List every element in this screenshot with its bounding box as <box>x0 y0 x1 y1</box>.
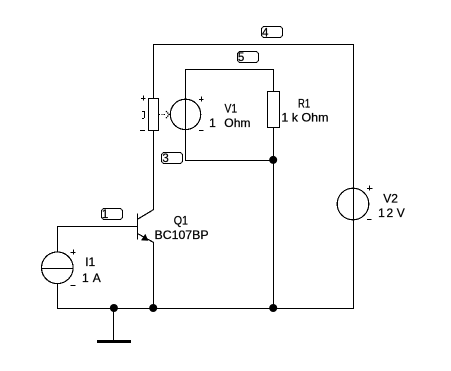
probe minus mark <box>140 130 145 132</box>
I1 chord line <box>42 268 73 270</box>
node 5 box <box>238 52 259 65</box>
wire inner loop bottom (node 3 net) <box>185 160 274 162</box>
wire emitter down <box>153 242 155 308</box>
node 4 box <box>262 27 283 40</box>
probe bracket label <box>142 111 145 119</box>
wire inner loop top (node 5 net) <box>185 69 274 71</box>
Q1 label <box>174 213 189 227</box>
node 3 box <box>162 153 183 166</box>
svg-text:A: A <box>93 271 101 285</box>
V1 value label <box>209 116 250 130</box>
I1 label <box>85 255 95 269</box>
svg-text:V1: V1 <box>225 102 238 116</box>
V2 value label <box>378 206 405 220</box>
wire I1 bottom <box>57 284 59 309</box>
junction dot R1 branch <box>269 304 277 312</box>
resistor R1 body <box>268 92 280 128</box>
svg-text:Q1: Q1 <box>174 213 189 227</box>
svg-text:3: 3 <box>162 153 168 165</box>
svg-text:Ohm: Ohm <box>224 116 250 130</box>
R1 label <box>298 97 310 111</box>
Q1 collector diagonal <box>138 210 154 219</box>
wire left branch upper <box>153 44 155 98</box>
I1 minus mark <box>71 285 76 287</box>
V2 label <box>383 192 398 206</box>
svg-text:R1: R1 <box>298 97 310 111</box>
junction dot ground <box>110 304 118 312</box>
V2 minus mark <box>367 219 372 221</box>
wire inner loop left through V1 <box>185 69 187 160</box>
wire bottom rail (ground net) <box>57 308 354 310</box>
probe plus mark <box>141 96 146 101</box>
svg-text:4: 4 <box>262 27 269 39</box>
I1 value label <box>82 271 101 285</box>
Q1 emitter arrow <box>141 234 148 240</box>
junction dot node 3 <box>269 156 277 164</box>
wire node 3 down to bottom rail <box>273 160 275 308</box>
svg-text:2: 2 <box>387 206 394 220</box>
wire R1 bottom to node 3 <box>273 128 275 160</box>
current sense probe rectangle of CCVS V1 <box>149 99 159 131</box>
wire R1 top feed <box>273 69 275 91</box>
wire top rail (node 4 net) <box>153 44 354 46</box>
V1 plus mark <box>199 97 204 102</box>
svg-text:1 k Ohm: 1 k Ohm <box>281 111 328 125</box>
svg-text:V2: V2 <box>383 192 398 206</box>
Q1 emitter diagonal <box>138 234 154 243</box>
wire I1 top <box>57 226 59 252</box>
svg-text:1: 1 <box>82 271 89 285</box>
V1 label <box>225 102 238 116</box>
current source I1 circle <box>42 252 74 284</box>
R1 value label <box>281 111 328 125</box>
wire right branch through V2 <box>353 44 355 308</box>
Q1 part number label <box>155 228 209 242</box>
svg-text:I1: I1 <box>85 255 95 269</box>
svg-text:5: 5 <box>238 52 244 64</box>
dotted control arrow <box>159 114 166 116</box>
wire left branch lower (collector feed) <box>153 131 155 210</box>
node 1 box <box>102 209 123 222</box>
V2 plus mark <box>367 186 373 191</box>
wire base (node 1 net) <box>57 226 138 228</box>
ground stem <box>113 308 115 340</box>
svg-text:1: 1 <box>102 209 108 221</box>
transistor Q1 base bar <box>137 214 139 240</box>
svg-text:V: V <box>397 206 405 220</box>
svg-text:1: 1 <box>209 116 216 130</box>
I1 plus mark <box>71 250 76 255</box>
ground bar <box>97 340 131 343</box>
svg-text:BC107BP: BC107BP <box>155 228 209 242</box>
svg-text:1: 1 <box>378 206 385 220</box>
voltage source V2 circle <box>337 188 369 220</box>
junction dot emitter <box>149 304 157 312</box>
V1 minus mark <box>199 130 204 132</box>
CCVS V1 circle <box>170 99 200 129</box>
